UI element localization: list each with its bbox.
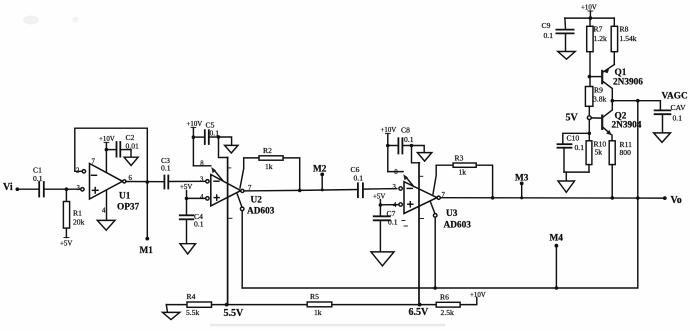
svg-text:AD603: AD603: [247, 207, 275, 217]
svg-text:VAGC: VAGC: [662, 92, 688, 102]
wire bottom rail: [166, 298, 477, 307]
svg-text:7: 7: [92, 159, 96, 166]
ground R10 C10: [558, 181, 575, 192]
transistor Q1 2N3906: [589, 65, 643, 101]
svg-text:C9: C9: [542, 21, 551, 30]
svg-text:0.1: 0.1: [575, 143, 585, 152]
wire U2 output to C6: [244, 189, 358, 193]
svg-text:M1: M1: [140, 246, 154, 256]
svg-text:R4: R4: [187, 292, 196, 301]
svg-text:0.1: 0.1: [673, 113, 683, 122]
wire U2 jog to pin1 line: [219, 137, 228, 158]
resistor R6: [436, 293, 460, 318]
svg-text:6.5V: 6.5V: [409, 307, 430, 318]
svg-text:C10: C10: [567, 134, 580, 143]
capacitor CAV: [655, 103, 686, 133]
wire U1 output to C3: [126, 181, 164, 183]
wire R10 C10 to ground: [564, 172, 589, 181]
power +5V at U2 pin4: [180, 184, 206, 200]
svg-text:3: 3: [200, 176, 204, 183]
svg-text:Q1: Q1: [615, 68, 627, 78]
svg-text:0.1: 0.1: [388, 218, 398, 227]
svg-text:+5V: +5V: [373, 194, 385, 201]
power +10V above U2: [187, 121, 211, 166]
power +5V at U3 pin4: [373, 194, 398, 207]
ground C7: [371, 252, 394, 266]
svg-text:+10V: +10V: [581, 5, 597, 12]
resistor R11: [609, 140, 632, 198]
transistor Q2 2N3904: [591, 101, 642, 141]
svg-text:U1: U1: [119, 192, 131, 202]
wire C8 to ground: [410, 144, 425, 153]
resistor R1: [63, 189, 84, 237]
capacitor C6: [351, 165, 397, 197]
svg-text:0.1: 0.1: [544, 31, 554, 40]
svg-text:1k: 1k: [265, 162, 273, 171]
svg-text:+10V: +10V: [381, 127, 397, 134]
wire U3 jog to pin1 line: [412, 146, 420, 163]
svg-text:5V: 5V: [566, 113, 579, 124]
resistor R9: [585, 86, 606, 116]
svg-text:4: 4: [393, 202, 397, 209]
svg-text:3: 3: [393, 184, 397, 191]
node M1: [140, 182, 154, 256]
node 5V: [566, 113, 592, 124]
resistor R8: [611, 18, 637, 64]
svg-text:1.54k: 1.54k: [620, 34, 637, 43]
power +10V top right: [565, 5, 614, 20]
svg-text:U2: U2: [251, 196, 263, 206]
svg-text:20k: 20k: [73, 218, 85, 227]
svg-text:R7: R7: [594, 25, 603, 34]
resistor R10: [586, 139, 606, 172]
wire 5V node to R10: [588, 120, 592, 141]
svg-text:0.01: 0.01: [126, 141, 139, 150]
resistor R4: [186, 292, 212, 317]
svg-text:8: 8: [394, 169, 398, 176]
power +10V above U1: [99, 136, 115, 172]
svg-text:U3: U3: [446, 209, 458, 219]
node Vi: [3, 182, 19, 193]
svg-text:1.2k: 1.2k: [594, 34, 607, 43]
svg-text:R6: R6: [440, 293, 449, 302]
capacitor C2: [106, 133, 139, 157]
ground U1 pin4: [97, 220, 115, 230]
op-amp U1 OP37: [76, 159, 140, 221]
svg-text:Vi: Vi: [3, 182, 13, 193]
capacitor C8: [388, 125, 414, 153]
svg-text:0.1: 0.1: [354, 174, 364, 183]
svg-text:R2: R2: [263, 146, 272, 155]
svg-text:0.1: 0.1: [404, 135, 414, 144]
svg-text:5k: 5k: [595, 147, 603, 156]
resistor R5: [307, 292, 332, 317]
op-amp U2 AD603: [200, 161, 275, 289]
svg-text:R5: R5: [310, 292, 319, 301]
capacitor C7: [374, 205, 405, 252]
svg-text:2N3906: 2N3906: [613, 78, 643, 88]
wire U2 pin1 through to 5.5V rail: [227, 158, 229, 305]
svg-text:+10V: +10V: [470, 292, 486, 299]
capacitor C3: [161, 156, 206, 189]
node M4: [550, 234, 564, 289]
wire U3 output Vo line: [440, 196, 666, 200]
resistor R3: [433, 153, 493, 198]
scan artifacts: [23, 16, 445, 327]
capacitor C9: [542, 18, 574, 51]
power +10V above U3: [381, 127, 404, 172]
svg-text:R9: R9: [594, 86, 603, 95]
svg-text:+10V: +10V: [187, 121, 203, 128]
capacitor C10: [558, 133, 590, 172]
ground C4: [180, 244, 196, 254]
svg-text:C6: C6: [351, 165, 360, 174]
wire Vi to C1: [17, 188, 39, 190]
resistor R7: [587, 18, 607, 86]
wire VAGC rail: [611, 99, 661, 110]
wire U3 pin1 through to 6.5V rail: [418, 163, 420, 305]
svg-text:+5V: +5V: [60, 240, 72, 247]
svg-text:CAV: CAV: [671, 103, 687, 112]
ground C5: [225, 145, 238, 153]
svg-text:5.5V: 5.5V: [224, 308, 245, 319]
svg-text:2.5k: 2.5k: [441, 308, 454, 317]
svg-text:800: 800: [620, 148, 632, 157]
svg-text:3.8k: 3.8k: [593, 95, 606, 104]
svg-text:R8: R8: [620, 25, 629, 34]
ground bottom rail: [163, 305, 180, 320]
node M3: [515, 174, 529, 198]
svg-text:4: 4: [200, 194, 204, 201]
ground CAV: [654, 133, 671, 143]
wire feedback loop U1: [75, 128, 149, 184]
wire C1 to U1 pin3: [44, 187, 81, 191]
svg-text:AD603: AD603: [444, 221, 472, 231]
svg-text:1k: 1k: [459, 167, 467, 176]
svg-text:R1: R1: [73, 209, 82, 218]
svg-text:R3: R3: [455, 153, 464, 162]
svg-text:OP37: OP37: [117, 203, 140, 213]
svg-text:5.5k: 5.5k: [186, 308, 199, 317]
svg-text:4: 4: [102, 208, 106, 215]
wire GNEG link U2 U3 M4 VAGC: [242, 101, 638, 290]
wire C5 to ground: [217, 135, 232, 145]
svg-text:0.1: 0.1: [161, 164, 171, 173]
svg-text:3: 3: [77, 185, 81, 192]
capacitor C5: [193, 121, 219, 145]
resistor R2: [240, 146, 300, 191]
capacitor C1: [33, 166, 44, 197]
svg-text:M4: M4: [550, 234, 564, 244]
ground C9: [558, 52, 575, 60]
svg-text:0.1: 0.1: [33, 174, 43, 183]
svg-text:Vo: Vo: [671, 195, 682, 206]
ground C8: [417, 153, 431, 162]
svg-text:C8: C8: [401, 125, 410, 134]
svg-text:1k: 1k: [314, 308, 322, 317]
power +5V below R1: [60, 238, 72, 248]
node M2: [313, 165, 327, 192]
svg-text:0.1: 0.1: [194, 220, 204, 229]
capacitor C4: [180, 198, 204, 243]
svg-text:M2: M2: [313, 165, 327, 175]
ground C2: [124, 157, 138, 165]
op-amp U3 AD603: [393, 169, 472, 288]
